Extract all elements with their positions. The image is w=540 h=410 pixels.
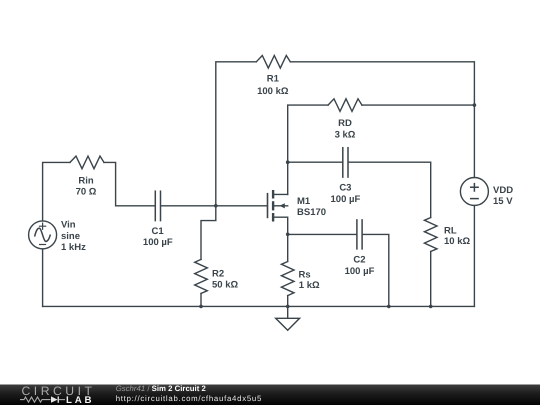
svg-text:Rin: Rin [78,175,94,186]
svg-text:1 kΩ: 1 kΩ [299,280,320,291]
voltage source VDD [460,178,488,206]
node: R2/bottom rail junction [199,305,203,309]
transistor M1 source stub [273,217,288,234]
wire: Vin top to Rin lead [43,162,70,221]
wire: Vin bottom to bottom rail [42,249,44,307]
svg-text:C3: C3 [339,183,351,194]
transistor M1 channel bars [272,190,274,222]
wire: drain to C3 left plate [288,161,343,163]
resistor Rin [70,156,104,169]
svg-text:RL: RL [444,225,457,236]
wire: RD to right rail [362,104,474,106]
node: RL/bottom rail junction [429,305,433,309]
svg-text:C2: C2 [353,255,365,266]
resistor RL [424,218,437,252]
wire: RL bottom lead [430,252,432,307]
resistor Rs [281,262,294,296]
node: drain/C3 junction [286,160,290,164]
resistor R1 [256,56,290,69]
svg-text:15 V: 15 V [493,196,513,207]
wire: C3 to RL top [348,162,431,217]
svg-text:BS170: BS170 [297,207,326,218]
wire: bottom rail [43,305,475,307]
ground [276,306,300,330]
wire: Rs top lead [287,234,289,261]
wire: R1 to right rail top [290,62,474,105]
svg-text:Vin: Vin [61,219,76,230]
node: RD/right rail junction [473,103,477,107]
svg-text:M1: M1 [297,196,311,207]
resistor R2 [195,259,208,293]
capacitor C1 [155,191,160,220]
node: gate junction [214,204,218,208]
svg-text:100 µF: 100 µF [331,194,361,205]
svg-text:10 kΩ: 10 kΩ [444,236,470,247]
wire: Rin to C1 left plate [104,162,155,205]
transistor M1 body stub [273,205,288,207]
wire: R2 bottom lead [200,294,202,307]
wire: Rs bottom lead [287,296,289,307]
svg-text:RD: RD [338,118,352,129]
wire: C2 horizontal from source node [288,233,357,235]
capacitor C2 [357,220,362,249]
wire: VDD bottom to bottom-right corner [473,206,475,307]
transistor M1 arrow [279,203,284,208]
resistor RD [328,99,362,112]
footer bar [0,385,540,406]
svg-text:VDD: VDD [493,185,513,196]
node: C2/bottom rail junction [387,305,391,309]
svg-text:R2: R2 [212,268,224,279]
wire: R2 jog from gate node [201,206,216,260]
logo wire to LAB [59,399,65,401]
svg-text:3 kΩ: 3 kΩ [335,129,356,140]
svg-text:100 µF: 100 µF [143,237,173,248]
wire: C2 right to bottom wire [362,234,389,306]
voltage source Vin [29,221,57,249]
wire: drain vertical [288,105,328,194]
svg-text:Gschr41 / Sim 2 Circuit 2: Gschr41 / Sim 2 Circuit 2 [116,384,207,393]
svg-text:C1: C1 [152,226,165,237]
svg-text:Rs: Rs [299,269,311,280]
svg-text:70 Ω: 70 Ω [76,187,97,198]
node: ground/bottom rail junction [286,305,290,309]
svg-text:sine: sine [61,231,80,242]
transistor M1 drain stub [273,193,288,195]
wire: right rail RD junction to VDD top [473,105,475,177]
node: source junction [286,233,290,237]
svg-text:1 kHz: 1 kHz [61,242,86,253]
svg-text:100 µF: 100 µF [345,266,375,277]
logo diode [51,396,59,402]
svg-text:50 kΩ: 50 kΩ [212,279,238,290]
logo resistor zigzag [20,397,51,402]
capacitor C3 [343,148,348,177]
wire: C1 to MOSFET gate [161,205,267,207]
svg-text:http://circuitlab.com/cfhaufa4: http://circuitlab.com/cfhaufa4dx5u5 [116,394,262,403]
transistor M1 gate bar [267,193,269,218]
svg-text:R1: R1 [267,73,280,84]
svg-text:LAB: LAB [66,395,94,405]
svg-text:100 kΩ: 100 kΩ [257,86,289,97]
wire: R1 left vertical [216,62,256,206]
